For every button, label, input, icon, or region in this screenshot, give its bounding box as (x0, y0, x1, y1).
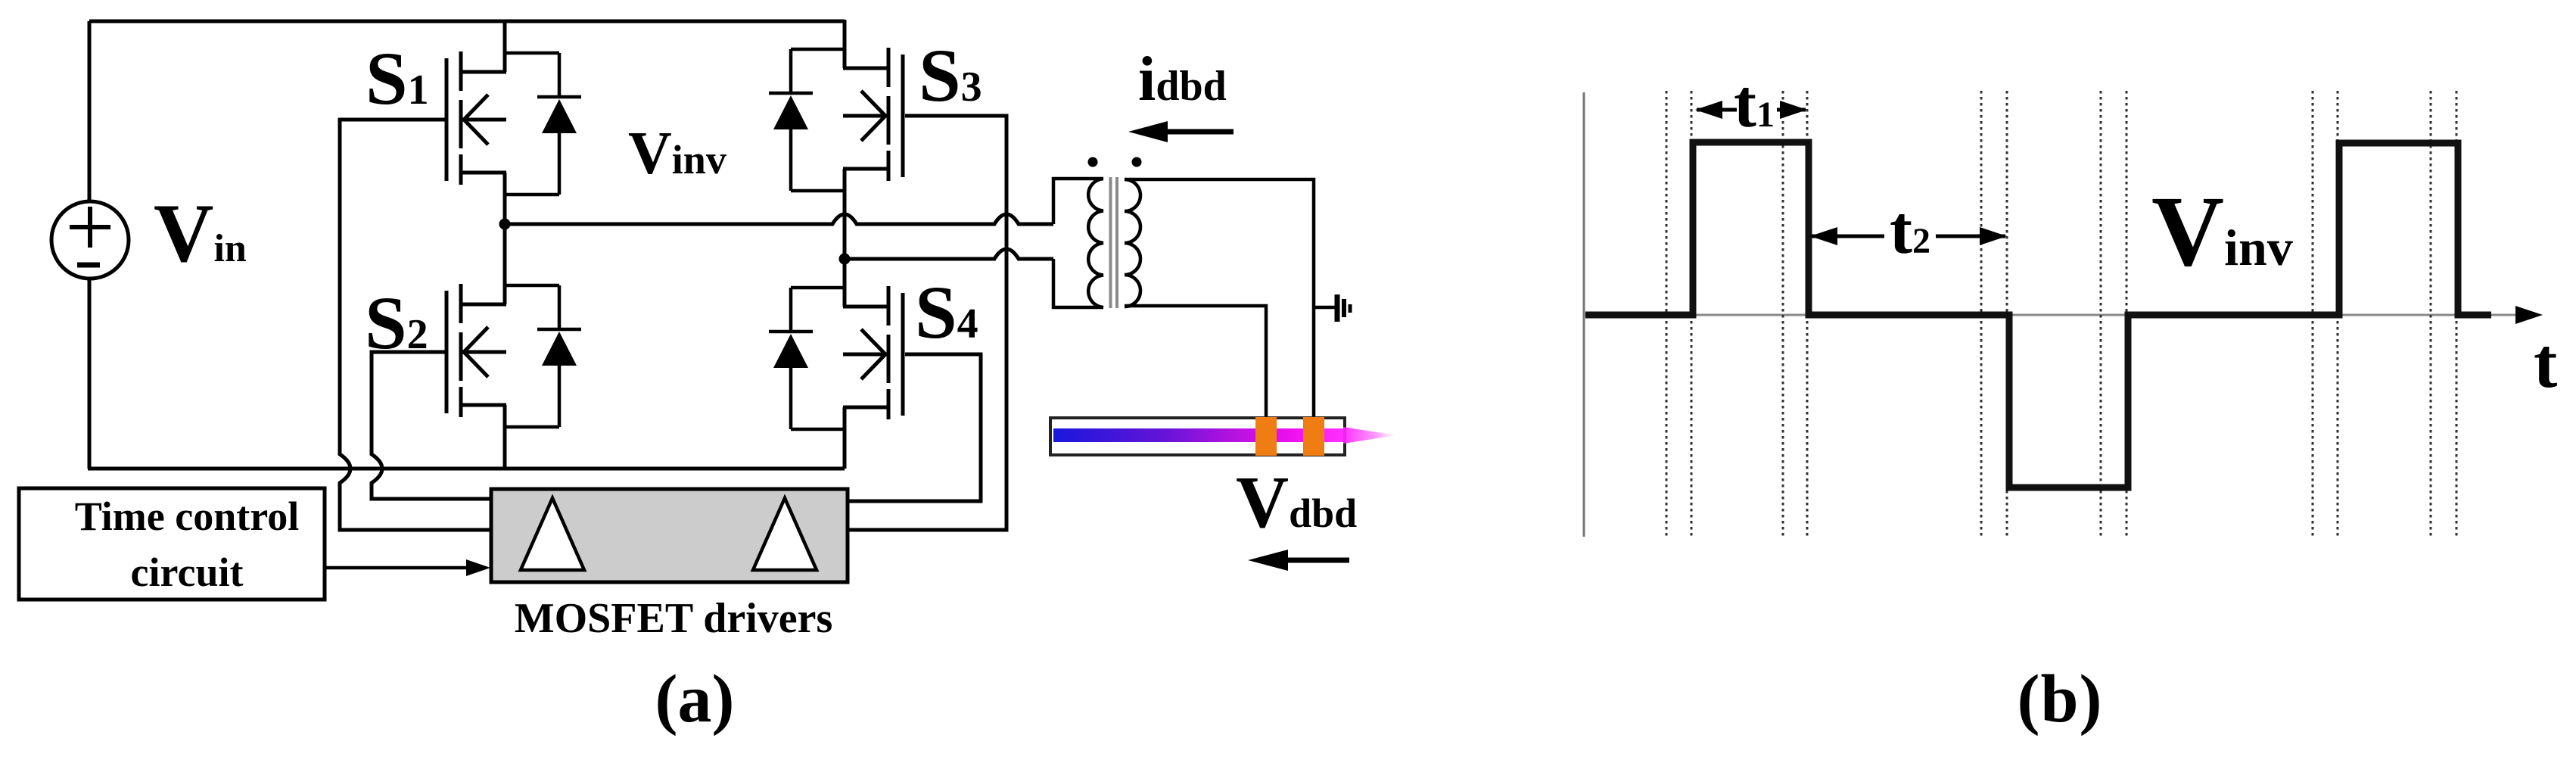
transistor S4 (843, 286, 903, 419)
electrode 1 orange (1255, 417, 1277, 456)
plasma plume at tube exit (1343, 427, 1397, 444)
body diode of S1 (505, 53, 581, 195)
wire from Vin bottom to bottom rail (88, 279, 92, 469)
guide dotted line 6 (2006, 91, 2008, 539)
transformer primary winding (1053, 179, 1103, 307)
wire S3 drain (843, 20, 847, 68)
transformer dot secondary (1132, 157, 1142, 167)
arrow i dbd (1162, 129, 1234, 135)
wire S2 gate to MOSFET drivers (hop over bottom rail) (372, 352, 491, 499)
guide dotted line 5 (1980, 91, 1983, 539)
wire S1 source to node A to S2 drain (503, 173, 507, 304)
wire secondary top to right electrode (1125, 179, 1314, 418)
electrode 2 orange (1303, 417, 1324, 456)
driver triangle 1 (521, 498, 584, 570)
guide dotted line 9 (2312, 91, 2314, 539)
svg-text:circuit: circuit (131, 550, 244, 595)
wire S2 source to bottom rail (503, 405, 507, 469)
plasma glow inside tube (1053, 428, 1343, 442)
ground symbol (1314, 294, 1350, 322)
wire S3 gate to MOSFET drivers right side (848, 116, 1006, 530)
driver triangle 2 (753, 498, 817, 570)
guide dotted line 3 (1782, 91, 1784, 539)
node A junction dot (499, 219, 511, 230)
transformer core (1109, 177, 1112, 308)
transistor S2 (446, 284, 506, 417)
guide dotted line 4 (1806, 91, 1809, 539)
node B junction dot (839, 254, 851, 265)
Vinv waveform trace (1585, 142, 2491, 488)
guide dotted line 11 (2430, 91, 2432, 539)
guide dotted line 12 (2456, 91, 2458, 539)
wire secondary bottom to left electrode (1125, 306, 1266, 418)
guide dotted line 8 (2126, 91, 2128, 539)
wire bottom rail (88, 467, 845, 471)
time axis arrowhead (2515, 306, 2543, 324)
dimension arrow t2 right (1936, 235, 2005, 238)
wire S1 gate to MOSFET drivers (hop over bottom rail) (340, 120, 491, 530)
MOSFET drivers box (491, 489, 848, 582)
body diode of S3 (769, 49, 845, 191)
transistor S3 (843, 48, 903, 181)
svg-text:(b): (b) (2017, 662, 2102, 737)
body diode of S4 (769, 288, 845, 429)
guide dotted line 2 (1691, 91, 1693, 539)
wire node A to transformer primary top (hops over S3 leg and S3 gate wire) (505, 214, 1053, 224)
waveform zero axis (1584, 314, 2520, 316)
wire left from Vin top to top rail (88, 21, 92, 201)
wire S1 drain (503, 20, 507, 72)
DBD tube body (1050, 418, 1345, 455)
svg-text:(a): (a) (655, 662, 735, 737)
voltage source Vin (51, 201, 129, 279)
dimension arrow t1 right (1777, 108, 1806, 112)
wire node B to transformer primary bottom (hop over S3 gate wire) (845, 249, 1053, 259)
transformer secondary winding (1125, 179, 1140, 307)
wire S4 source to bottom rail (843, 407, 847, 469)
Time control circuit box (19, 488, 325, 600)
transformer dot primary (1088, 157, 1098, 167)
transistor S1 (446, 51, 506, 185)
wire S4 gate to MOSFET drivers right side (848, 354, 981, 501)
wire S3 source to node B to S4 drain (843, 169, 847, 307)
guide dotted line 10 (2337, 91, 2339, 539)
guide dotted line 7 (2100, 91, 2102, 539)
svg-text:MOSFET drivers: MOSFET drivers (515, 595, 833, 642)
guide dotted line 1 (1666, 91, 1668, 539)
dimension arrow t1 left (1697, 108, 1737, 112)
svg-text:Time control: Time control (75, 494, 299, 539)
arrow V dbd (1286, 558, 1349, 563)
dimension arrow t2 left (1812, 235, 1884, 238)
wire top rail (89, 20, 845, 23)
waveform vertical axis (1583, 92, 1585, 537)
arrow from time control circuit to MOSFET drivers (325, 566, 471, 570)
body diode of S2 (505, 285, 581, 427)
svg-text:t: t (2534, 324, 2557, 403)
